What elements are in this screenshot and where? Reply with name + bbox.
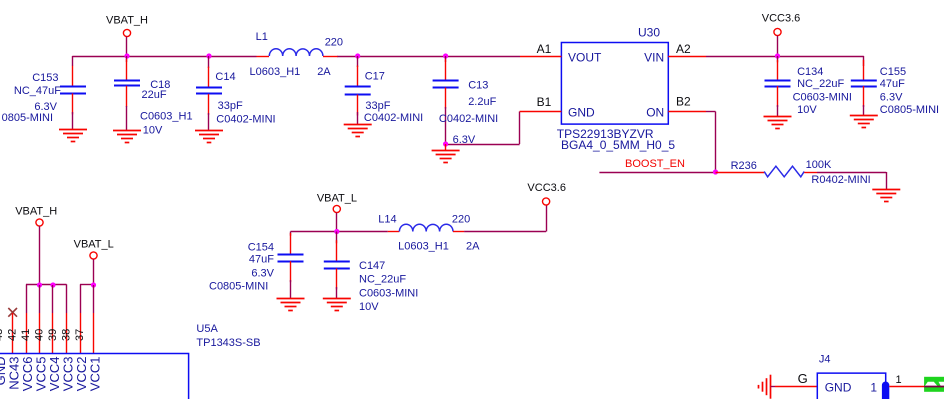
svg-text:33pF: 33pF: [365, 100, 390, 112]
pin number 41: [20, 329, 32, 341]
svg-text:10V: 10V: [797, 104, 817, 116]
label L1 value 220: [325, 37, 343, 49]
svg-text:1: 1: [870, 381, 877, 395]
svg-text:C14: C14: [215, 71, 235, 83]
pin NC43 lead: [12, 313, 14, 354]
svg-text:43: 43: [0, 329, 5, 341]
label J4: [819, 354, 831, 366]
wire pin VCC1 drop: [93, 285, 95, 313]
pin name VCC1: [88, 357, 103, 392]
label C154: [248, 241, 274, 253]
svg-text:B1: B1: [537, 95, 552, 109]
pin 1 label: [896, 374, 902, 386]
label C155 footprint: [880, 104, 939, 116]
pin VOUT name: [568, 51, 602, 65]
label C14: [215, 71, 235, 83]
pin number 39: [47, 329, 59, 341]
pin B1 wire: [520, 111, 562, 113]
off-page connector: [924, 377, 944, 392]
pin A1 wire: [520, 56, 561, 58]
label C147 value: [359, 274, 406, 286]
pin number 40: [33, 329, 45, 341]
label C153 voltage: [34, 101, 57, 113]
label C13 footprint: [439, 113, 498, 125]
svg-text:VCC3.6: VCC3.6: [762, 13, 801, 25]
svg-text:C134: C134: [797, 66, 823, 78]
wire pin 37 drop: [80, 284, 82, 313]
IC U5A body: [0, 354, 189, 399]
wire pin 38 drop: [66, 284, 68, 313]
label C155 value: [880, 78, 905, 90]
label C18 value: [142, 89, 167, 101]
svg-text:33pF: 33pF: [218, 100, 243, 112]
label U5A part number: [196, 337, 260, 349]
svg-text:22uF: 22uF: [142, 89, 167, 101]
ground C134: [764, 117, 792, 129]
junction C14/bus: [206, 53, 211, 58]
junction VBAT_L: [334, 229, 339, 234]
svg-text:GND: GND: [825, 381, 852, 395]
svg-text:R236: R236: [731, 160, 757, 172]
svg-text:NC_22uF: NC_22uF: [359, 274, 406, 286]
capacitor C13: [433, 56, 459, 144]
svg-text:U30: U30: [638, 26, 660, 40]
wire pin 40 drop: [39, 285, 41, 313]
svg-text:BGA4_0_5MM_H0_5: BGA4_0_5MM_H0_5: [561, 138, 675, 152]
pin B2 number: [676, 95, 691, 109]
ground R236: [872, 190, 900, 202]
ground C153: [59, 130, 87, 142]
svg-text:VOUT: VOUT: [568, 51, 602, 65]
label C154 footprint: [209, 281, 268, 293]
label C147: [359, 260, 385, 272]
svg-text:1: 1: [896, 374, 902, 386]
svg-text:100K: 100K: [806, 159, 832, 171]
label L14 footprint: [398, 241, 449, 253]
label C14 value: [218, 100, 243, 112]
svg-text:220: 220: [452, 214, 470, 226]
wire L14 to VCC3.6: [464, 205, 546, 231]
ground C154: [277, 299, 305, 311]
label U30: [638, 26, 660, 40]
label R236: [731, 160, 757, 172]
svg-text:42: 42: [6, 329, 18, 341]
wire VBAT_H pin bus: [26, 284, 67, 286]
svg-text:J4: J4: [819, 354, 831, 366]
label C13: [468, 80, 488, 92]
pin 1 number inside: [870, 381, 877, 395]
svg-text:C0603-MINI: C0603-MINI: [359, 287, 418, 299]
svg-text:2A: 2A: [317, 66, 331, 78]
svg-text:ON: ON: [646, 106, 664, 120]
label L1: [256, 31, 268, 43]
label C13 voltage: [453, 134, 476, 146]
resistor R236: [716, 166, 818, 177]
svg-text:C0402-MINI: C0402-MINI: [439, 113, 498, 125]
svg-text:37: 37: [74, 329, 86, 341]
junction VBAT_L feed: [91, 282, 96, 287]
junction pin 39: [50, 282, 55, 287]
svg-text:220: 220: [325, 37, 343, 49]
label C13 value: [468, 96, 496, 108]
svg-text:L1: L1: [256, 31, 268, 43]
pin GND name: [825, 381, 852, 395]
pin B2 wire: [668, 111, 706, 113]
wire B2 to BOOST_EN: [706, 112, 716, 173]
svg-text:6.3V: 6.3V: [251, 268, 274, 280]
label C153: [32, 72, 58, 84]
label C18 footprint: [140, 110, 193, 122]
capacitor C14: [196, 56, 222, 130]
svg-text:C153: C153: [32, 72, 58, 84]
pin VCC5 lead: [39, 313, 41, 354]
capacitor C153: [60, 66, 86, 130]
svg-text:VCC3.6: VCC3.6: [527, 182, 566, 194]
label C153 value: [14, 85, 61, 97]
svg-text:C17: C17: [365, 71, 385, 83]
label U5A: [196, 323, 218, 335]
pin VCC4 lead: [52, 313, 54, 354]
svg-text:VBAT_H: VBAT_H: [106, 15, 148, 27]
label L14 current 2A: [466, 241, 480, 253]
junction C18/bus: [124, 53, 129, 58]
label C134 voltage: [797, 104, 817, 116]
svg-text:C147: C147: [359, 260, 385, 272]
power symbol VCC3.6 mid: [527, 182, 566, 205]
pin name VCC5: [34, 357, 49, 392]
label C154 voltage: [251, 268, 274, 280]
pin A1 number: [537, 42, 552, 56]
power symbol VCC3.6: [762, 13, 801, 57]
wire BOOST_EN stub: [599, 172, 715, 174]
label L1 current 2A: [317, 66, 331, 78]
svg-text:VCC1: VCC1: [88, 357, 103, 392]
wire VBAT_L pin bus: [80, 284, 94, 286]
wire pin 39 drop: [52, 285, 54, 313]
label C134 footprint: [793, 92, 852, 104]
junction VBAT_H feed: [37, 282, 42, 287]
ground C17: [344, 125, 372, 137]
pin VCC1 lead: [93, 313, 95, 354]
pin VCC2 lead: [80, 313, 82, 354]
power symbol VBAT_L bottom: [74, 239, 114, 285]
capacitor C134: [765, 56, 791, 116]
junction C13/B1/ground: [443, 141, 448, 146]
svg-text:TP1343S-SB: TP1343S-SB: [196, 337, 260, 349]
wire VBAT_L bus: [291, 232, 388, 236]
svg-text:VBAT_L: VBAT_L: [317, 193, 357, 205]
pin G label: [798, 371, 808, 386]
svg-text:NC_22uF: NC_22uF: [797, 78, 844, 90]
wire A2 to VCC3.6: [706, 56, 864, 66]
pin number 43: [0, 329, 5, 341]
ground C147: [323, 299, 351, 311]
pin number 42: [6, 329, 18, 341]
capacitor C147: [324, 232, 350, 299]
svg-text:C0402-MINI: C0402-MINI: [216, 114, 275, 126]
label C153 footprint: [2, 112, 53, 124]
svg-text:6.3V: 6.3V: [880, 92, 903, 104]
svg-text:A1: A1: [537, 42, 552, 56]
svg-text:38: 38: [60, 329, 72, 341]
pin name VCC2: [74, 357, 89, 392]
label U30 footprint: [561, 138, 675, 152]
svg-text:C155: C155: [880, 66, 906, 78]
label C18: [150, 79, 170, 91]
power symbol VBAT_H bottom: [15, 205, 57, 285]
svg-text:C0805-MINI: C0805-MINI: [880, 104, 939, 116]
svg-text:C0402-MINI: C0402-MINI: [364, 112, 423, 124]
svg-text:L14: L14: [378, 214, 396, 226]
label L14: [378, 214, 396, 226]
pin ON name: [646, 106, 664, 120]
power symbol VBAT_L mid: [317, 193, 357, 232]
capacitor C154: [278, 233, 304, 299]
junction VCC3.6/bus: [775, 53, 780, 58]
label C147 footprint: [359, 287, 418, 299]
label U30 part number: [557, 127, 654, 141]
label C155 voltage: [880, 92, 903, 104]
svg-text:C0603-MINI: C0603-MINI: [793, 92, 852, 104]
svg-text:C0603_H1: C0603_H1: [140, 110, 193, 122]
ground C155: [850, 116, 878, 128]
capacitor C17: [345, 56, 371, 125]
label C18 voltage: [143, 125, 163, 137]
svg-text:10V: 10V: [143, 125, 163, 137]
svg-text:A2: A2: [676, 42, 691, 56]
junction C13/bus: [443, 53, 448, 58]
wire B1 to C13 ground: [446, 112, 520, 145]
svg-text:VBAT_H: VBAT_H: [15, 205, 57, 217]
wire L1 to A1: [337, 56, 520, 58]
label C154 value: [249, 254, 274, 266]
svg-text:0805-MINI: 0805-MINI: [2, 112, 53, 124]
pin name GND: [0, 357, 8, 386]
svg-text:C0805-MINI: C0805-MINI: [209, 281, 268, 293]
svg-text:U5A: U5A: [196, 323, 218, 335]
capacitor C155: [851, 60, 877, 116]
pin name VCC4: [47, 357, 62, 392]
label C14 footprint: [216, 114, 275, 126]
svg-text:2A: 2A: [466, 241, 480, 253]
label C155: [880, 66, 906, 78]
svg-text:10V: 10V: [359, 301, 379, 313]
svg-text:40: 40: [33, 329, 45, 341]
junction C17/bus: [355, 53, 360, 58]
pin number 38: [60, 329, 72, 341]
label C17: [365, 71, 385, 83]
svg-text:47uF: 47uF: [249, 254, 274, 266]
pin VIN name: [644, 51, 664, 65]
svg-text:G: G: [798, 371, 808, 386]
label L14 value 220: [452, 214, 470, 226]
label C17 footprint: [364, 112, 423, 124]
net label BOOST_EN: [625, 158, 685, 170]
pin G wire: [775, 386, 817, 388]
pin number 37: [74, 329, 86, 341]
pin 1 wire: [889, 386, 924, 388]
label C134: [797, 66, 823, 78]
pin name VCC6: [20, 357, 35, 392]
label C17 value: [365, 100, 390, 112]
label C134 value: [797, 78, 844, 90]
svg-text:R0402-MINI: R0402-MINI: [811, 174, 870, 186]
no-connect pin 42: [8, 308, 17, 317]
label R236 footprint: [811, 174, 870, 186]
svg-text:BOOST_EN: BOOST_EN: [625, 158, 685, 170]
ground J4: [759, 375, 776, 399]
capacitor C18: [114, 56, 140, 130]
svg-text:L0603_H1: L0603_H1: [398, 241, 449, 253]
svg-text:NC_47uF: NC_47uF: [14, 85, 61, 97]
svg-text:41: 41: [20, 329, 32, 341]
svg-text:VIN: VIN: [644, 51, 664, 65]
svg-text:VBAT_L: VBAT_L: [74, 239, 114, 251]
svg-text:2.2uF: 2.2uF: [468, 96, 496, 108]
label R236 value 100K: [806, 159, 832, 171]
ground C18: [113, 131, 141, 143]
svg-text:47uF: 47uF: [880, 78, 905, 90]
pin B1 number: [537, 95, 552, 109]
pin A2 number: [676, 42, 691, 56]
svg-text:C13: C13: [468, 80, 488, 92]
wire pin 41 drop: [26, 284, 28, 313]
svg-text:39: 39: [47, 329, 59, 341]
pin VCC6 lead: [26, 313, 28, 354]
ground C13: [432, 144, 460, 163]
power symbol VBAT_H: [106, 15, 148, 57]
inductor L1: [257, 49, 338, 57]
pin GND name: [568, 106, 595, 120]
wire R236 to ground: [817, 172, 887, 190]
junction BOOST_EN: [713, 169, 718, 174]
svg-text:C154: C154: [248, 241, 274, 253]
pin A2 wire: [668, 56, 706, 58]
IC U30 body: [561, 43, 668, 125]
ground C14: [195, 131, 223, 143]
pin VCC3 lead: [66, 313, 68, 354]
label C147 voltage: [359, 301, 379, 313]
svg-text:B2: B2: [676, 95, 691, 109]
pin name NC43: [7, 357, 22, 390]
svg-text:GND: GND: [568, 106, 595, 120]
wire VBAT bus left: [72, 56, 256, 66]
connector pin bubble: [882, 382, 889, 399]
inductor L14: [388, 224, 464, 231]
label L1 footprint: [250, 66, 301, 78]
connector J4 body: [817, 373, 885, 399]
pin name VCC3: [61, 357, 76, 392]
svg-text:L0603_H1: L0603_H1: [250, 66, 301, 78]
